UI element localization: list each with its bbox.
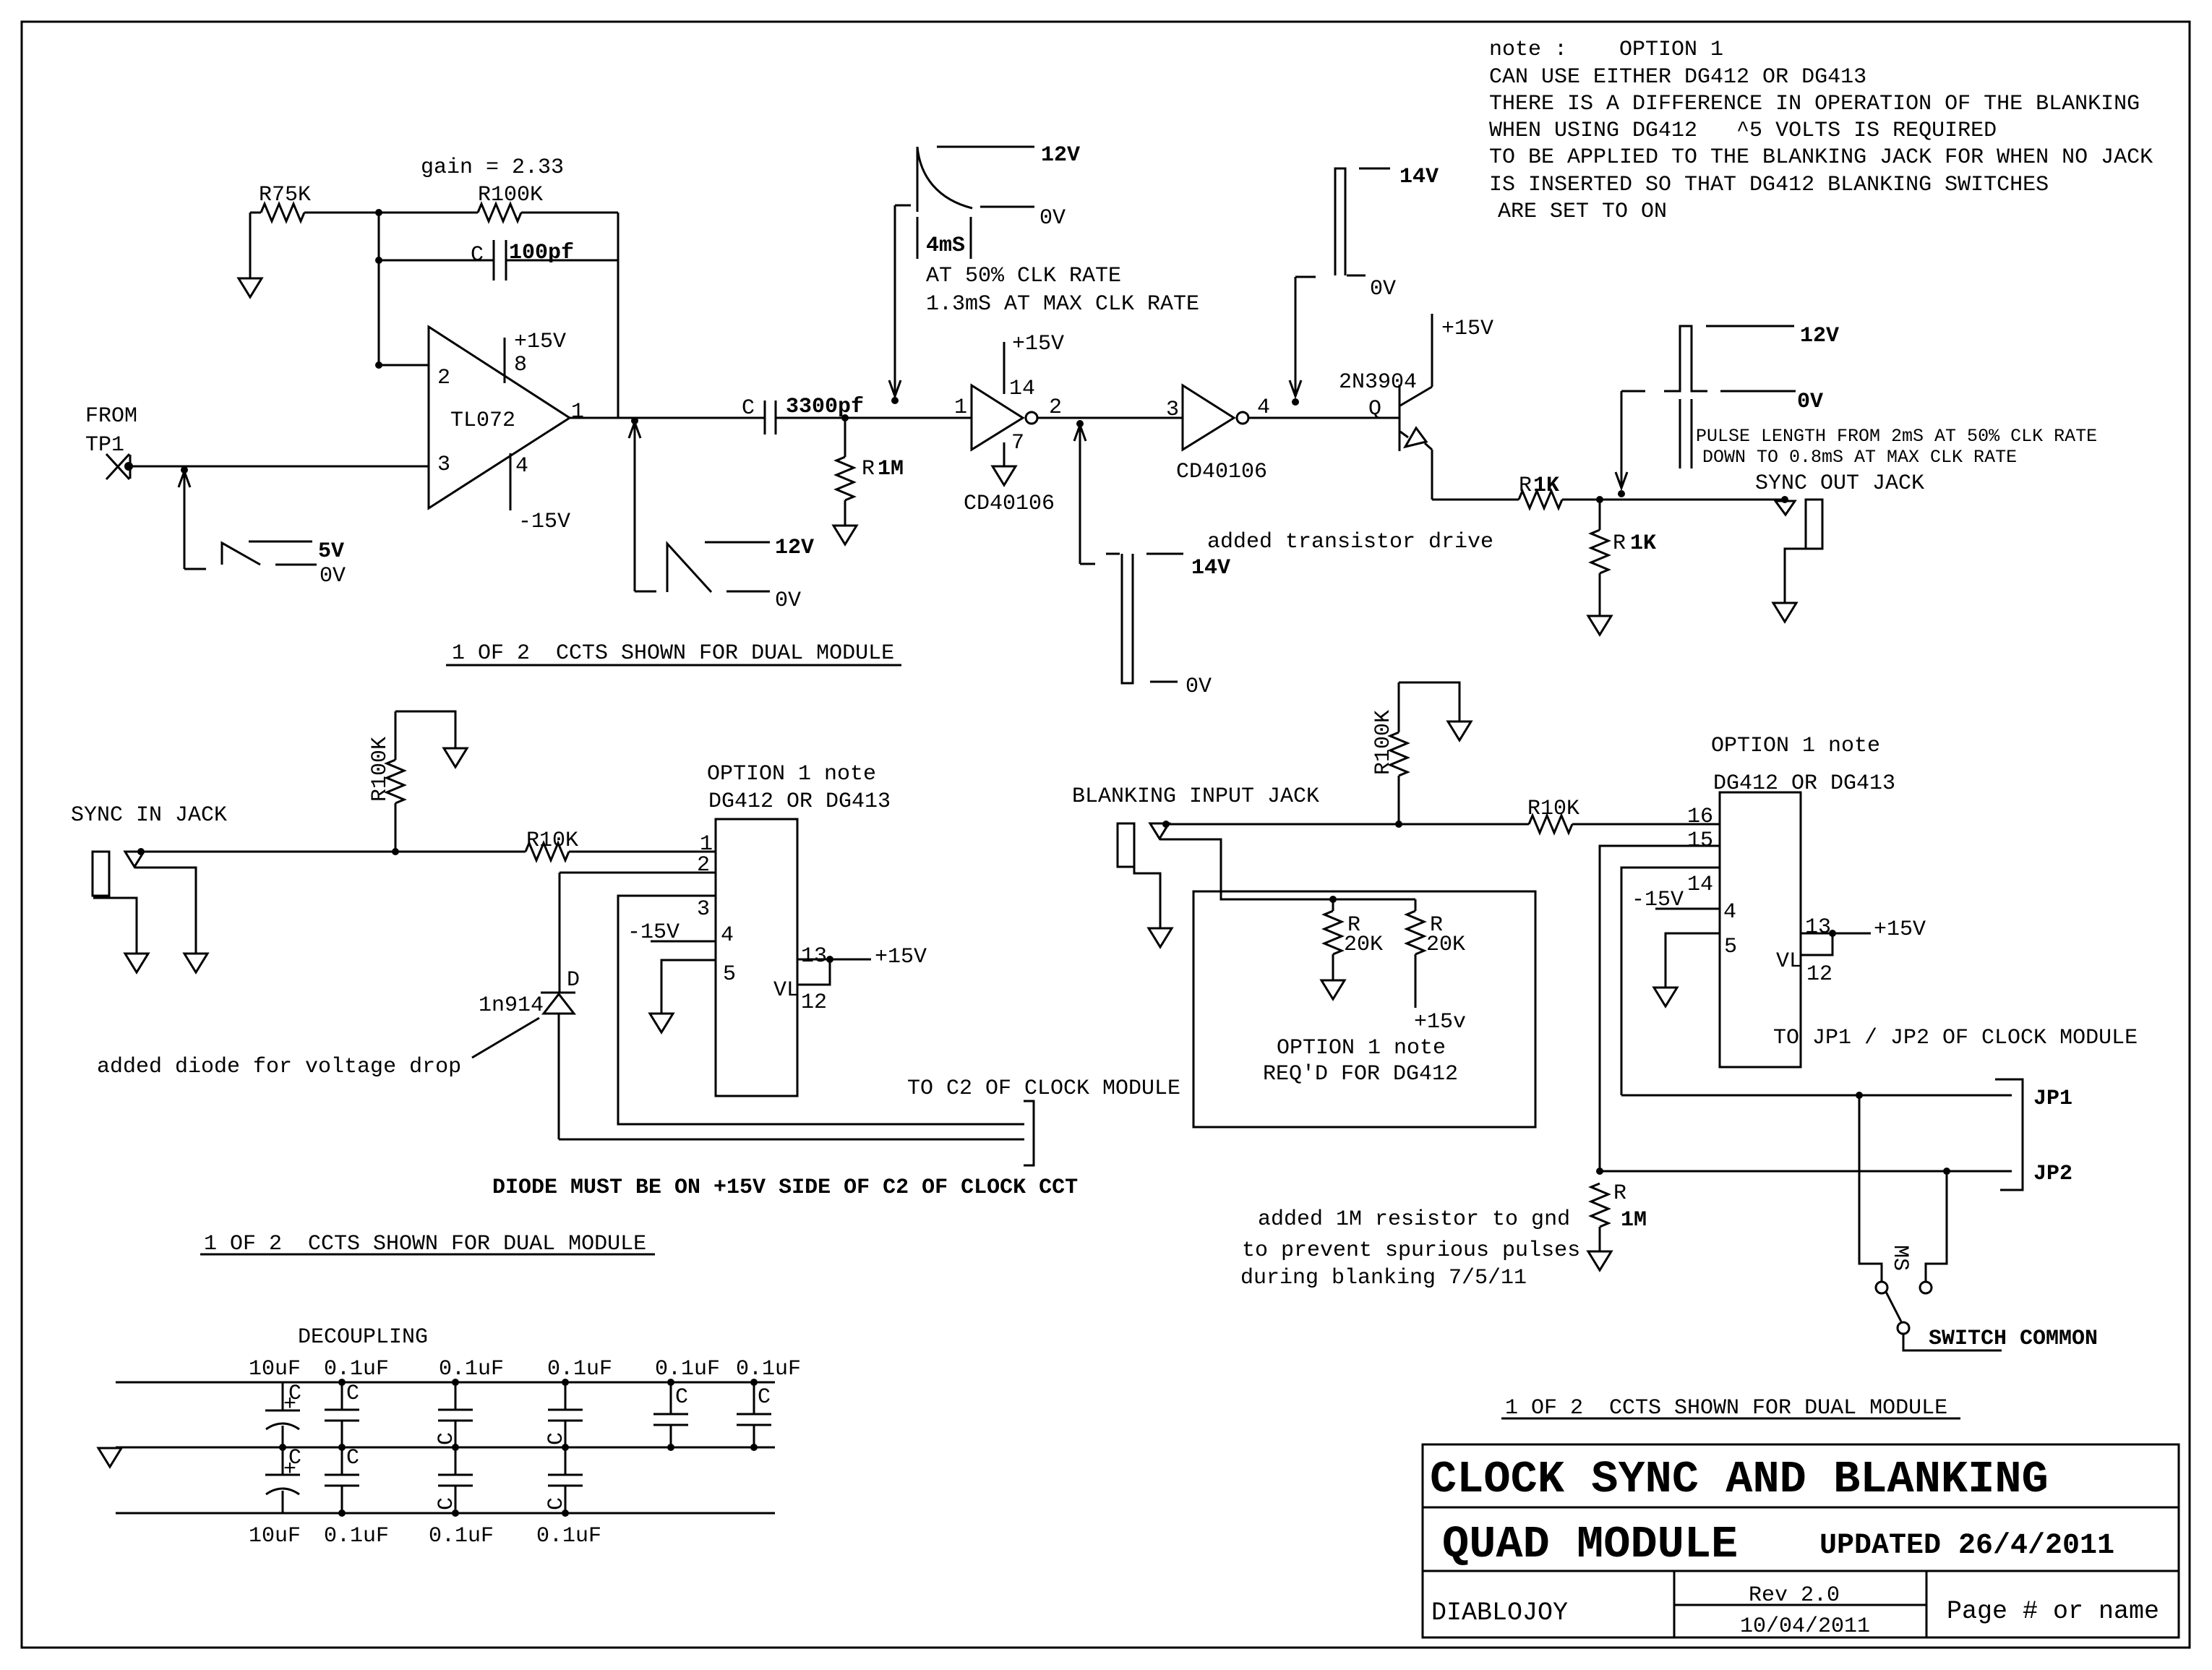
svg-text:4: 4	[721, 923, 734, 948]
svg-text:0.1uF: 0.1uF	[547, 1357, 612, 1382]
rail +V top	[116, 1382, 775, 1384]
node junction dots on left feedback rail	[375, 209, 382, 216]
inverter U2A pins 1-2	[972, 385, 1023, 450]
svg-text:0.1uF: 0.1uF	[439, 1357, 504, 1382]
wire JP1	[1621, 1095, 2012, 1097]
svg-text:CD40106: CD40106	[1176, 460, 1267, 484]
wire to op-amp inverting input	[379, 364, 429, 367]
svg-text:IS INSERTED SO THAT DG412 BLAN: IS INSERTED SO THAT DG412 BLANKING SWITC…	[1489, 173, 2049, 197]
svg-text:SYNC OUT JACK: SYNC OUT JACK	[1755, 471, 1924, 496]
wire op-amp output	[570, 417, 765, 419]
svg-text:TO BE APPLIED TO THE BLANKING: TO BE APPLIED TO THE BLANKING JACK FOR W…	[1489, 145, 2153, 170]
inverter U2B pins 3-4	[1183, 385, 1234, 450]
svg-text:JP1: JP1	[2033, 1087, 2072, 1111]
svg-text:20K: 20K	[1426, 933, 1465, 957]
wire input to op-amp pin 3	[129, 466, 429, 468]
svg-text:12V: 12V	[775, 536, 814, 560]
pointer arrow down to sync out wire	[1621, 391, 1623, 488]
svg-text:VL: VL	[1776, 949, 1802, 974]
ground (middle rail)	[98, 1448, 121, 1467]
resistor R20K #1	[1332, 899, 1334, 911]
svg-text:OPTION 1 note: OPTION 1 note	[1277, 1036, 1446, 1061]
svg-text:added transistor drive: added transistor drive	[1207, 530, 1493, 554]
svg-text:0V: 0V	[1370, 277, 1396, 301]
svg-text:+15V: +15V	[1874, 917, 1926, 942]
svg-text:10/04/2011: 10/04/2011	[1740, 1614, 1870, 1639]
title block frame	[1423, 1444, 2179, 1637]
svg-text:13: 13	[1805, 915, 1831, 940]
svg-text:DOWN TO 0.8mS AT MAX CLK RATE: DOWN TO 0.8mS AT MAX CLK RATE	[1702, 447, 2017, 468]
svg-text:CLOCK SYNC AND BLANKING: CLOCK SYNC AND BLANKING	[1430, 1454, 2049, 1505]
wire jack tip to R10K	[141, 851, 526, 853]
wire left feedback rail	[378, 213, 380, 365]
svg-text:1 OF 2 CCTS SHOWN FOR DUAL MO: 1 OF 2 CCTS SHOWN FOR DUAL MODULE	[1505, 1396, 1947, 1421]
svg-text:5V: 5V	[318, 539, 344, 564]
svg-text:5: 5	[1724, 935, 1737, 959]
bracket to clock module	[1024, 1101, 1034, 1165]
svg-text:JP2: JP2	[2033, 1162, 2072, 1186]
svg-text:DIABLOJOY: DIABLOJOY	[1431, 1598, 1568, 1627]
node junction	[1329, 896, 1337, 903]
pointer arrow up to wire (inverted pulse annotation)	[1076, 420, 1084, 427]
svg-text:ARE SET TO ON: ARE SET TO ON	[1498, 200, 1667, 224]
wire diode to bracket	[559, 1139, 1024, 1141]
wire jack sleeve to ground	[93, 898, 137, 954]
svg-text:R10K: R10K	[526, 828, 578, 853]
svg-text:15: 15	[1687, 828, 1713, 853]
svg-text:REQ'D FOR DG412: REQ'D FOR DG412	[1263, 1062, 1458, 1087]
svg-text:13: 13	[801, 944, 827, 969]
ground (R1M)	[833, 526, 857, 544]
svg-text:SYNC IN JACK: SYNC IN JACK	[71, 803, 227, 828]
pointer arrow from 4mS bracket down to wire	[895, 205, 911, 207]
svg-text:R: R	[1613, 1181, 1626, 1206]
input terminal X marker	[106, 454, 130, 479]
svg-text:5: 5	[723, 962, 736, 987]
svg-text:CD40106: CD40106	[964, 492, 1055, 516]
svg-text:D: D	[567, 968, 580, 993]
svg-text:7: 7	[1011, 431, 1024, 455]
svg-text:4: 4	[1257, 395, 1270, 420]
svg-text:SWITCH COMMON: SWITCH COMMON	[1929, 1327, 2098, 1351]
svg-text:during blanking 7/5/11: during blanking 7/5/11	[1240, 1266, 1527, 1290]
svg-text:100pf: 100pf	[509, 241, 574, 265]
wire jack switch contact into option box	[1160, 839, 1415, 899]
svg-text:1.3mS AT MAX CLK RATE: 1.3mS AT MAX CLK RATE	[926, 292, 1199, 317]
svg-text:OPTION 1 note: OPTION 1 note	[707, 762, 876, 787]
bracket JP	[1995, 1079, 2023, 1190]
svg-text:8: 8	[514, 353, 527, 377]
svg-text:2N3904: 2N3904	[1339, 370, 1417, 395]
svg-text:12V: 12V	[1800, 324, 1839, 348]
svg-text:10uF: 10uF	[249, 1524, 301, 1549]
svg-text:C: C	[346, 1446, 359, 1470]
wire cap to inverter 1	[776, 417, 972, 419]
svg-text:C: C	[675, 1385, 688, 1410]
svg-text:note : OPTION 1: note : OPTION 1	[1489, 38, 1723, 62]
svg-text:0V: 0V	[1039, 206, 1066, 231]
svg-text:added diode for voltage drop: added diode for voltage drop	[97, 1055, 461, 1079]
svg-text:0.1uF: 0.1uF	[655, 1357, 720, 1382]
node junction R100K	[392, 848, 399, 855]
svg-text:12: 12	[1806, 962, 1832, 987]
svg-text:2: 2	[1049, 395, 1062, 420]
svg-text:+15v: +15v	[1414, 1010, 1466, 1035]
exp decay waveform 12V/0V with 4mS	[917, 147, 919, 212]
output waveform pointer arrow	[631, 417, 638, 424]
svg-text:1: 1	[954, 395, 967, 420]
svg-text:R1M: R1M	[862, 457, 904, 481]
wire jack tip to R10K and R100K	[1166, 823, 1529, 826]
svg-text:3300pf: 3300pf	[786, 395, 864, 419]
pin 14 +15V	[1003, 342, 1006, 394]
pulse waveform 12V/0V narrow	[1664, 326, 1707, 391]
svg-text:0.1uF: 0.1uF	[324, 1357, 389, 1382]
wire JP2	[1600, 1170, 2012, 1173]
svg-text:12V: 12V	[1041, 143, 1080, 168]
input sawtooth waveform 5V/0V	[222, 543, 260, 565]
inverted pulse waveform 14V/0V	[1106, 553, 1120, 555]
svg-text:2: 2	[437, 366, 450, 390]
svg-text:QUAD MODULE: QUAD MODULE	[1442, 1519, 1738, 1570]
pointer arrow down to wire (14V pulse annotation)	[1295, 277, 1297, 396]
svg-text:+: +	[283, 1392, 296, 1417]
svg-text:AT 50% CLK RATE: AT 50% CLK RATE	[926, 264, 1121, 288]
svg-text:TO JP1 / JP2 OF CLOCK MODULE: TO JP1 / JP2 OF CLOCK MODULE	[1773, 1026, 2138, 1050]
node junction	[1596, 496, 1603, 503]
svg-text:added 1M resistor to gnd: added 1M resistor to gnd	[1258, 1207, 1570, 1232]
svg-text:R1K: R1K	[1613, 531, 1656, 556]
svg-text:14V: 14V	[1399, 165, 1439, 189]
svg-text:16: 16	[1687, 805, 1713, 829]
svg-text:VL: VL	[773, 978, 800, 1003]
svg-text:OPTION 1 note: OPTION 1 note	[1711, 734, 1880, 758]
sync in jack	[93, 852, 109, 896]
svg-text:14: 14	[1687, 873, 1713, 897]
svg-text:+15V: +15V	[875, 945, 927, 969]
svg-text:2: 2	[697, 853, 710, 878]
switch MS	[1859, 1095, 1882, 1282]
svg-text:+15V: +15V	[1441, 317, 1493, 341]
svg-text:1 OF 2 CCTS SHOWN FOR DUAL MO: 1 OF 2 CCTS SHOWN FOR DUAL MODULE	[204, 1232, 646, 1256]
op-amp U1 TL072	[429, 327, 570, 508]
svg-text:TP1: TP1	[85, 433, 124, 458]
svg-text:C: C	[758, 1385, 771, 1410]
svg-text:4: 4	[515, 454, 528, 479]
svg-text:Rev 2.0: Rev 2.0	[1749, 1583, 1840, 1608]
svg-text:TO C2 OF CLOCK MODULE: TO C2 OF CLOCK MODULE	[907, 1076, 1180, 1101]
ground (R75K)	[239, 278, 262, 297]
svg-text:1: 1	[571, 400, 584, 424]
svg-text:DG412 OR DG413: DG412 OR DG413	[708, 789, 891, 814]
output sawtooth waveform 12V/0V	[667, 544, 711, 592]
node junction R100K-2	[1395, 821, 1402, 828]
svg-text:14: 14	[1009, 377, 1035, 401]
svg-text:0V: 0V	[320, 564, 346, 588]
svg-text:+: +	[283, 1457, 296, 1482]
svg-text:UPDATED 26/4/2011: UPDATED 26/4/2011	[1819, 1530, 2114, 1562]
svg-text:0V: 0V	[775, 588, 801, 613]
sync out jack	[1781, 496, 1788, 503]
svg-text:0.1uF: 0.1uF	[429, 1524, 494, 1549]
svg-text:1 OF 2 CCTS SHOWN FOR DUAL MO: 1 OF 2 CCTS SHOWN FOR DUAL MODULE	[452, 641, 894, 666]
svg-text:-15V: -15V	[518, 510, 570, 534]
svg-text:20K: 20K	[1344, 933, 1383, 957]
pin 7 ground	[1003, 442, 1006, 466]
node junction R1M	[841, 414, 849, 421]
wire inverter2 to transistor base	[1248, 417, 1399, 419]
rail 0V middle	[116, 1447, 775, 1449]
svg-text:1M: 1M	[1621, 1208, 1647, 1233]
resistor R 1M to ground	[1591, 1183, 1608, 1227]
svg-text:gain = 2.33: gain = 2.33	[421, 155, 564, 180]
wire jack switch contact to ground	[135, 868, 196, 954]
wire switch common	[1903, 1334, 2002, 1350]
svg-text:Page # or name: Page # or name	[1947, 1597, 2159, 1626]
svg-text:PULSE LENGTH FROM 2mS AT 50% C: PULSE LENGTH FROM 2mS AT 50% CLK RATE	[1696, 426, 2097, 447]
svg-text:R10K: R10K	[1527, 797, 1579, 821]
svg-text:3: 3	[697, 897, 710, 922]
svg-text:DECOUPLING: DECOUPLING	[298, 1325, 428, 1350]
wire emitter to R1K	[1432, 499, 1519, 501]
svg-text:WHEN USING DG412 ^5 VOLTS IS: WHEN USING DG412 ^5 VOLTS IS REQUIRED	[1489, 119, 1997, 143]
svg-text:C: C	[471, 243, 484, 267]
svg-text:BLANKING INPUT JACK: BLANKING INPUT JACK	[1072, 784, 1319, 809]
svg-text:0V: 0V	[1797, 390, 1823, 414]
svg-text:TL072: TL072	[450, 408, 515, 433]
svg-text:+15V: +15V	[514, 330, 566, 354]
pulse waveform 14V/0V	[1335, 168, 1345, 275]
svg-text:to prevent spurious pulses: to prevent spurious pulses	[1242, 1238, 1580, 1263]
wire jack sleeve to ground	[1134, 867, 1160, 928]
svg-text:3: 3	[1166, 398, 1179, 422]
svg-text:Q: Q	[1368, 397, 1381, 421]
svg-text:14V: 14V	[1191, 556, 1230, 581]
resistor R1M	[844, 418, 846, 457]
option box	[1193, 891, 1535, 1127]
blanking jack	[1118, 823, 1134, 867]
pulse length annotation bars	[1680, 399, 1692, 468]
svg-text:12: 12	[801, 990, 827, 1015]
svg-text:10uF: 10uF	[249, 1357, 301, 1382]
svg-text:0.1uF: 0.1uF	[536, 1524, 601, 1549]
svg-text:FROM: FROM	[85, 404, 137, 429]
svg-text:THERE IS A DIFFERENCE IN OPERA: THERE IS A DIFFERENCE IN OPERATION OF TH…	[1489, 92, 2140, 116]
svg-text:3: 3	[437, 453, 450, 477]
svg-text:0.1uF: 0.1uF	[324, 1524, 389, 1549]
svg-text:MS: MS	[1887, 1245, 1912, 1271]
wire feedback right vertical	[617, 213, 620, 418]
resistor R20K #2	[1415, 899, 1417, 911]
svg-text:0.1uF: 0.1uF	[736, 1357, 801, 1382]
svg-text:DIODE MUST BE ON +15V SIDE OF: DIODE MUST BE ON +15V SIDE OF C2 OF CLOC…	[492, 1176, 1078, 1200]
svg-text:4mS: 4mS	[926, 234, 965, 258]
ground (R1K)	[1588, 616, 1611, 635]
wire inverter1 to inverter2	[1037, 417, 1183, 419]
svg-text:C: C	[346, 1382, 359, 1406]
resistor R1K shunt	[1599, 500, 1601, 530]
svg-text:1n914: 1n914	[479, 993, 544, 1018]
svg-text:CAN USE EITHER DG412 OR DG413: CAN USE EITHER DG412 OR DG413	[1489, 65, 1866, 90]
pin 4 -15V	[510, 453, 512, 510]
svg-text:C: C	[742, 396, 755, 421]
svg-text:4: 4	[1723, 900, 1736, 925]
rail -V bottom	[116, 1512, 775, 1515]
pin 8 +15V	[504, 338, 506, 383]
input waveform pointer arrow	[181, 466, 188, 474]
svg-text:R75K: R75K	[259, 183, 311, 207]
svg-text:+15V: +15V	[1012, 332, 1064, 356]
svg-text:0V: 0V	[1186, 675, 1212, 699]
